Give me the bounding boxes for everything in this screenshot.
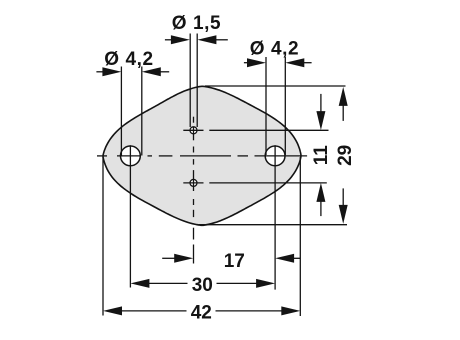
mounting hole right: [265, 146, 285, 166]
dimension Ø1,5 extension lines: [190, 34, 197, 128]
mounting hole left: [120, 146, 140, 166]
svg-text:30: 30: [192, 275, 213, 296]
dimension 29 extension lines: [199, 86, 347, 225]
vertical centerline (pin hole axis): [193, 117, 195, 240]
dimension 30 line and arrows: [130, 279, 275, 288]
dimension Ø4,2 left arrows: [96, 67, 169, 76]
dimension 11 extension lines: [209, 130, 328, 183]
dimension Ø4,2 right arrows: [244, 58, 312, 67]
svg-text:Ø 1,5: Ø 1,5: [172, 13, 221, 34]
horizontal centerline: [97, 155, 307, 157]
pin hole top: [190, 127, 197, 134]
svg-text:29: 29: [335, 145, 356, 166]
flange outline (TO-3 plate): [103, 86, 301, 225]
pin hole top crosshair: [183, 129, 203, 131]
svg-text:17: 17: [224, 251, 245, 272]
dimension Ø4,2 right extension lines: [266, 57, 285, 155]
svg-text:Ø 4,2: Ø 4,2: [250, 39, 299, 60]
dimension Ø1,5 arrows: [165, 35, 228, 44]
dimension 42 line and arrows: [103, 306, 300, 315]
pin hole bottom: [190, 179, 197, 186]
dimension 29 arrows: [339, 87, 348, 224]
pin hole bottom crosshair: [183, 182, 203, 184]
svg-text:Ø 4,2: Ø 4,2: [104, 49, 153, 70]
dimension 17 extension lines: [193, 245, 195, 264]
dimension Ø4,2 left extension lines: [121, 67, 141, 156]
mounting hole left axis line: [129, 145, 131, 287]
dimension 11 arrows: [316, 94, 325, 216]
svg-text:11: 11: [311, 145, 332, 166]
dimension 42 extension lines: [103, 157, 300, 316]
dimension 17 arrows: [162, 254, 300, 263]
svg-text:42: 42: [191, 303, 212, 324]
mounting hole right axis line: [274, 145, 276, 289]
